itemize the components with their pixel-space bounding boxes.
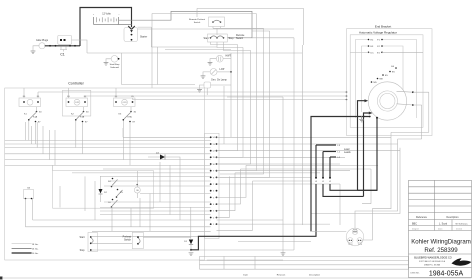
svg-text:8: 8	[213, 177, 214, 179]
AVR right wires	[382, 51, 423, 53]
svg-text:Gen. On Lamp: Gen. On Lamp	[211, 79, 227, 82]
wire sender bus vertical	[230, 53, 232, 72]
svg-text:Start: Start	[79, 236, 84, 239]
corner mark	[0, 277, 3, 280]
AVR box	[350, 35, 423, 128]
contactor C1	[58, 35, 72, 56]
svg-text:Glow Plugs: Glow Plugs	[36, 39, 49, 42]
load lead L1	[322, 152, 364, 197]
svg-text:13: 13	[213, 144, 215, 146]
connector P1	[346, 228, 364, 246]
AVR pins left column	[350, 39, 374, 55]
dark return wire	[358, 118, 378, 191]
svg-text:1: 1	[213, 224, 214, 226]
diode D4	[148, 153, 180, 163]
svg-text:3: 3	[213, 211, 214, 213]
svg-text:Leads: Leads	[344, 151, 351, 154]
generator G1	[368, 82, 406, 120]
diode D1	[184, 240, 193, 251]
AVR inner loop 2	[356, 40, 417, 119]
load lead L2	[329, 157, 377, 190]
revision table	[200, 256, 409, 276]
svg-text:T1 T2: T1 T2	[353, 230, 357, 232]
svg-text:LOP: LOP	[220, 68, 225, 71]
svg-text:Remote Preheat: Remote Preheat	[189, 18, 205, 21]
svg-text:L3: L3	[315, 181, 317, 183]
svg-text:Starter: Starter	[140, 36, 147, 39]
load lead L3	[315, 145, 341, 183]
exciter feed dark	[311, 117, 370, 232]
wire mid bus verticals	[217, 14, 270, 178]
svg-text:checked: checked	[456, 229, 462, 231]
svg-text:14: 14	[213, 137, 215, 139]
remote start/stop station	[79, 233, 97, 253]
generator output terminals	[391, 91, 429, 139]
AVR inner loop 3	[362, 46, 404, 112]
legend 16 Ga	[12, 247, 32, 249]
svg-text:2: 2	[213, 217, 214, 219]
gen on lamp	[197, 79, 231, 95]
svg-text:Description: Description	[309, 273, 321, 276]
svg-text:Ref. 258399: Ref. 258399	[424, 247, 458, 254]
svg-text:K1A: K1A	[33, 116, 38, 119]
svg-text:Switch: Switch	[194, 21, 201, 24]
svg-text:Controller: Controller	[68, 82, 84, 86]
relay K3	[114, 88, 137, 165]
relay K2	[66, 88, 89, 154]
end bracket box	[347, 29, 433, 136]
diode D2	[99, 176, 108, 202]
wire preheat to D1	[143, 236, 191, 238]
svg-text:designed: designed	[412, 229, 419, 231]
ground (glow plugs)	[31, 51, 36, 54]
LOP sender	[201, 68, 232, 79]
svg-text:CCR: CCR	[75, 102, 80, 104]
terminal strip TB1	[210, 136, 218, 226]
svg-text:7: 7	[213, 184, 214, 186]
svg-text:11: 11	[213, 157, 215, 159]
svg-text:HWT: HWT	[226, 55, 232, 58]
wire lower row jogs	[217, 165, 379, 230]
svg-text:T5 T6: T5 T6	[358, 244, 362, 246]
svg-text:DC: DC	[371, 52, 375, 54]
svg-text:Revision: Revision	[277, 274, 286, 276]
svg-text:Kohler WiringDiagram: Kohler WiringDiagram	[411, 239, 471, 246]
AVR pins right column	[377, 39, 383, 55]
svg-text:C1: C1	[60, 53, 65, 57]
wire band left horizontals	[5, 140, 211, 231]
relay K4 group box	[53, 171, 154, 209]
svg-text:KTA: KTA	[80, 116, 85, 119]
svg-text:drawn: drawn	[438, 229, 442, 231]
svg-text:5: 5	[213, 197, 214, 199]
remote start/stop switch	[203, 34, 245, 42]
svg-text:T3 T4: T3 T4	[348, 244, 352, 246]
preheat pushbutton	[123, 232, 144, 248]
remote preheat switch	[189, 17, 224, 27]
svg-text:Automatic Voltage Regulator: Automatic Voltage Regulator	[359, 31, 397, 35]
svg-text:Start: Start	[203, 37, 208, 40]
wire battery minus to remote stop	[119, 11, 252, 37]
ground (D1)	[189, 253, 194, 256]
svg-text:6: 6	[213, 191, 214, 193]
svg-text:1984-055A: 1984-055A	[429, 271, 464, 278]
legend 18 Ga	[12, 243, 32, 245]
svg-text:12 Volts: 12 Volts	[102, 12, 111, 15]
svg-text:KTA: KTA	[128, 116, 133, 119]
battery B1 12 Volts	[93, 12, 132, 24]
wire right-side verticals	[207, 38, 371, 260]
svg-text:Stop: Stop	[229, 37, 235, 40]
start/stop solenoid	[106, 56, 120, 69]
relay K2 outer loop	[62, 90, 90, 116]
ground (solenoid)	[104, 63, 109, 66]
svg-text:Solenoid: Solenoid	[110, 67, 119, 69]
svg-text:18 Ga.: 18 Ga.	[32, 244, 39, 246]
svg-text:Stop: Stop	[80, 249, 86, 252]
svg-text:Switch: Switch	[124, 239, 132, 242]
legend 10 Ga	[12, 252, 32, 254]
wire band left verticals	[26, 122, 211, 239]
svg-text:4: 4	[213, 204, 214, 206]
ground (mid right)	[281, 253, 286, 256]
svg-text:End Bracket: End Bracket	[375, 24, 392, 28]
svg-text:L. Scott: L. Scott	[439, 222, 447, 225]
wires controller top to end bracket	[38, 92, 347, 100]
svg-text:10: 10	[213, 164, 215, 166]
svg-text:L2: L2	[329, 181, 331, 183]
svg-text:L1: L1	[322, 181, 324, 183]
relay G4 box	[24, 188, 34, 227]
svg-text:BBC: BBC	[412, 222, 417, 225]
title block	[409, 180, 472, 277]
wire C1 to solenoid bus	[72, 40, 88, 53]
svg-text:Switch: Switch	[236, 37, 244, 40]
wire strip right horizontals	[217, 137, 401, 224]
battery loop wire	[80, 8, 132, 47]
terminal strip box	[205, 133, 220, 238]
svg-text:Start/Stop: Start/Stop	[110, 63, 121, 66]
relay K4 contacts group	[108, 178, 123, 208]
svg-text:12: 12	[213, 151, 215, 153]
wire solenoid vertical	[122, 47, 196, 85]
svg-text:Date: Date	[243, 273, 248, 276]
wire starter to bus	[138, 27, 232, 49]
ground (exciter)	[359, 116, 364, 122]
svg-text:W. Schneura: W. Schneura	[456, 222, 469, 225]
wire glow plugs to C1 (10 Ga)	[45, 45, 80, 47]
relay coil OB	[134, 171, 140, 198]
svg-text:1984 F.C. 35 SB: 1984 F.C. 35 SB	[424, 264, 440, 266]
wire preheat to start row	[213, 27, 264, 36]
svg-text:FORT VALLEY GEORGIA U.S.A: FORT VALLEY GEORGIA U.S.A	[419, 260, 446, 263]
field wire L1 arrow	[364, 113, 370, 196]
svg-text:OCR: OCR	[123, 102, 128, 104]
svg-text:BLUEBIRD WANDERLODGE CO: BLUEBIRD WANDERLODGE CO	[414, 256, 451, 259]
wires to connector	[217, 220, 347, 242]
wire top run	[152, 8, 304, 88]
svg-text:10 Ga.: 10 Ga.	[32, 253, 39, 255]
svg-text:16 Ga.: 16 Ga.	[32, 249, 39, 251]
relay K1	[19, 88, 42, 144]
wire bus y53	[87, 52, 302, 54]
wires start/stop station	[92, 236, 294, 250]
wires remote switch down to bus	[211, 42, 251, 51]
svg-text:DWG NO.: DWG NO.	[411, 273, 420, 275]
svg-text:Reference: Reference	[416, 216, 428, 219]
bluebird logo	[452, 258, 472, 265]
wire step-down right	[311, 132, 400, 240]
glow plugs	[33, 39, 49, 51]
HWT sender	[208, 55, 232, 66]
sheet bottom border	[2, 277, 472, 279]
wire D1 dark run to L3	[191, 184, 316, 250]
generator field pins	[371, 66, 397, 84]
svg-text:Description: Description	[447, 216, 460, 219]
svg-text:9: 9	[213, 171, 214, 173]
field wire L2 arrow	[358, 101, 366, 191]
starter M1	[124, 26, 147, 42]
controller box	[5, 88, 205, 260]
